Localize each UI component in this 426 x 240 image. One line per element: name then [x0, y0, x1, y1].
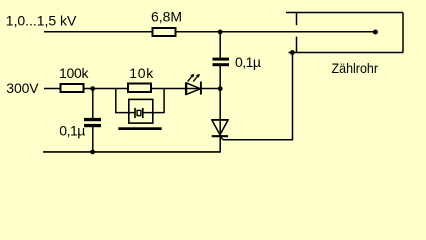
Geiger tube envelope bottom: [289, 52, 404, 54]
svg-text:10k: 10k: [129, 65, 154, 81]
piezo housing: [129, 99, 153, 123]
junction dot tube cathode: [290, 50, 295, 55]
diode D1 base: [212, 119, 228, 121]
resistor 6,8M: [153, 28, 176, 36]
piezo left plate: [134, 108, 136, 118]
wire piezo left connector: [116, 89, 135, 113]
wire vertical C2 branch: [92, 89, 94, 152]
svg-text:Zählrohr: Zählrohr: [332, 60, 379, 76]
wire bottom ground rail: [43, 151, 221, 153]
piezo right plate: [142, 108, 144, 118]
diode D1 cathode bar: [212, 135, 228, 137]
wire vertical C1 branch: [219, 32, 221, 152]
wire middle rail 300V: [44, 88, 220, 90]
svg-text:6,8M: 6,8M: [151, 8, 182, 24]
resistor 100k: [61, 84, 84, 92]
wire tube cathode return: [220, 53, 292, 140]
capacitor C1 0,1u top plate: [213, 58, 230, 61]
piezo base plate: [118, 127, 161, 130]
wire top rail HV: [44, 31, 376, 33]
junction dot C2 bottom: [90, 150, 95, 155]
junction dot C2 top: [90, 86, 95, 91]
node anode end dot: [373, 30, 378, 35]
piezo crystal: [137, 110, 141, 115]
LED anode bar: [185, 83, 187, 95]
svg-text:0,1µ: 0,1µ: [235, 54, 261, 70]
resistor 10k: [128, 84, 151, 93]
capacitor C2 0,1u bottom plate: [84, 124, 101, 127]
LED triangle: [187, 83, 201, 94]
Geiger tube envelope right: [402, 13, 404, 53]
Geiger tube envelope top: [286, 12, 403, 14]
capacitor C2 0,1u top plate: [84, 118, 101, 121]
LED light arrow 2: [193, 74, 200, 82]
junction dot top C1: [218, 30, 223, 35]
wire piezo right connector: [143, 89, 165, 113]
diode D1 triangle: [212, 120, 228, 135]
svg-text:0,1µ: 0,1µ: [59, 123, 85, 139]
svg-text:100k: 100k: [59, 65, 90, 81]
svg-text:300V: 300V: [6, 80, 39, 96]
LED light arrow 1: [188, 74, 195, 82]
LED cathode bar: [200, 82, 202, 95]
junction dot LED cathode: [218, 86, 223, 91]
Geiger tube left wall with wire gap: [296, 13, 298, 53]
capacitor C1 0,1u bottom plate: [213, 63, 230, 66]
svg-text:1,0...1,5 kV: 1,0...1,5 kV: [6, 12, 77, 28]
